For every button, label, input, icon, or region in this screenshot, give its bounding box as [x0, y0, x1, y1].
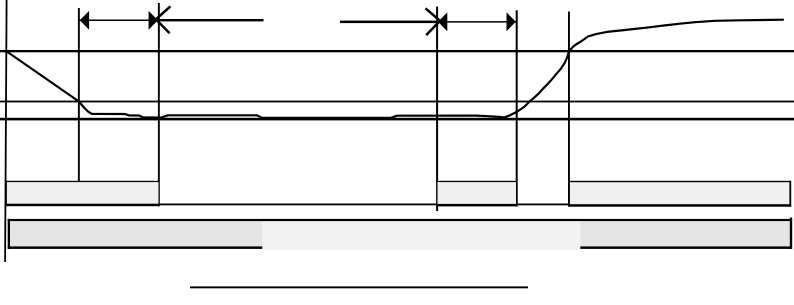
bar bottom border left: [8, 246, 263, 249]
threshold line top: [0, 50, 794, 52]
waveform trace: [7, 20, 783, 118]
break mark at v2 upper arm: [157, 6, 171, 18]
box 1 top border: [6, 181, 160, 182]
connector line under boxes: [158, 204, 570, 206]
dimension line 2: [437, 21, 516, 23]
shaded box 3 fill: [569, 182, 790, 205]
box 3 left border: [568, 181, 570, 207]
arrowhead right of dimension 1: [149, 11, 158, 30]
box 2 top border: [437, 181, 518, 182]
break mark at v3 lower arm: [426, 22, 439, 35]
box 2 bottom border: [436, 204, 517, 207]
bar top border: [8, 219, 792, 221]
shaded box 2 fill: [438, 182, 517, 204]
shaded box 1 fill: [7, 182, 159, 205]
bar right edge: [790, 218, 792, 249]
cursor line v5: [568, 12, 570, 183]
leader line to v3: [340, 21, 437, 24]
bar bottom border right: [580, 246, 791, 249]
dimension line 1: [79, 20, 158, 22]
bar middle segment fill: [262, 221, 580, 250]
box 3 right border: [789, 181, 791, 207]
arrowhead left of dimension 2: [438, 12, 447, 31]
underline at bottom: [190, 286, 528, 288]
bar left edge: [8, 219, 10, 249]
bar left segment fill: [10, 221, 262, 246]
break mark at v3 upper arm: [426, 8, 440, 20]
cursor line v4: [516, 10, 518, 206]
arrowhead left of dimension 1: [80, 11, 89, 30]
left axis: [5, 0, 7, 262]
box 3 top border: [569, 181, 791, 182]
box 3 bottom border: [569, 204, 791, 207]
box 1 left border: [5, 181, 7, 206]
bar right segment fill: [580, 221, 790, 246]
leader line from v2: [158, 19, 264, 21]
cursor line v2: [158, 3, 160, 206]
break mark at v2 lower arm: [157, 21, 169, 34]
arrowhead right of dimension 2: [507, 12, 516, 31]
threshold line middle: [0, 101, 794, 103]
cursor line v3: [436, 7, 438, 212]
threshold line bottom: [0, 118, 794, 121]
box 1 bottom border: [5, 204, 160, 207]
cursor line v1: [78, 8, 80, 184]
